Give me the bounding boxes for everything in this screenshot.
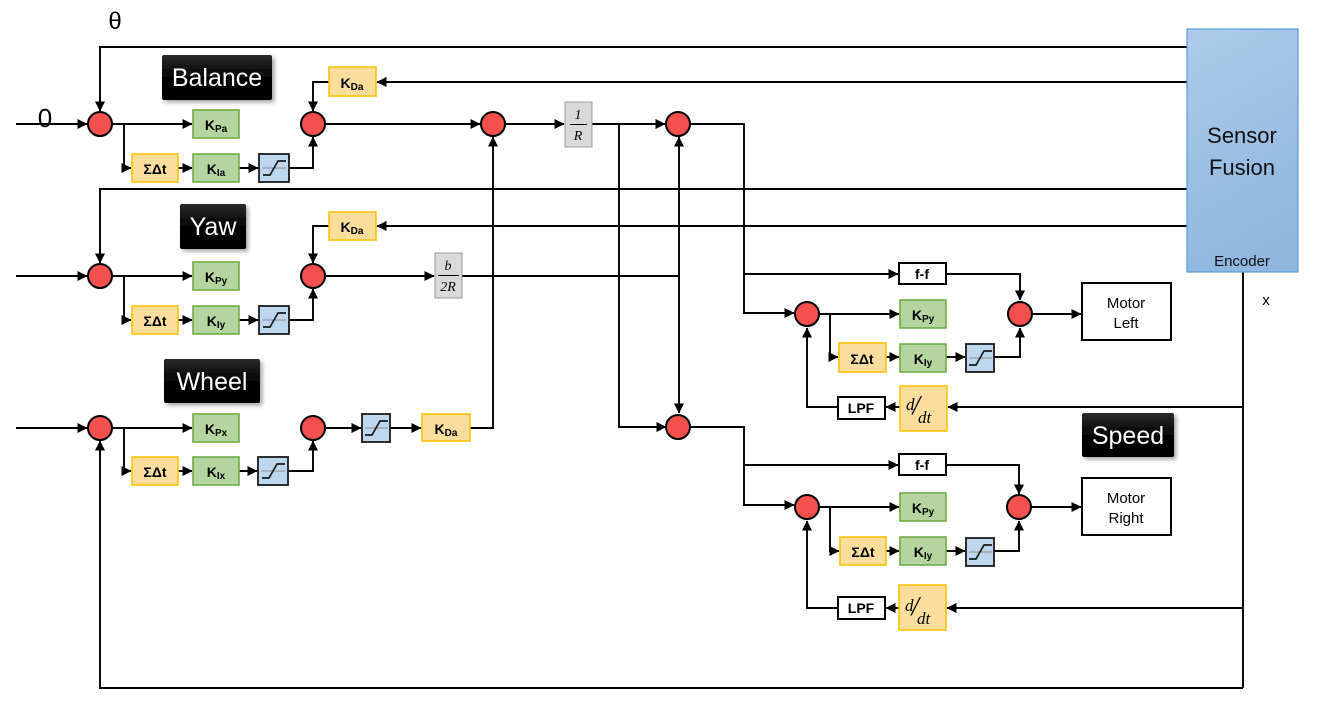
wire KIy left to saturation	[946, 356, 965, 358]
wire theta feedback from sensor fusion to balance sum	[100, 47, 1187, 111]
svg-text:ΣΔt: ΣΔt	[143, 161, 166, 177]
block LPF left	[838, 397, 885, 419]
gain KIy motor right	[900, 537, 946, 565]
block 1/R	[565, 102, 592, 147]
wire left out sum to Motor Left	[1032, 313, 1081, 315]
wire KDa yaw to yaw pid sum	[313, 226, 329, 263]
block d/dt left	[900, 386, 947, 431]
svg-text:0: 0	[38, 103, 52, 133]
wire b/2R output to vertical	[462, 275, 679, 277]
wire wheel sum to KPx	[113, 427, 192, 429]
gain KDa balance	[329, 67, 376, 96]
svg-text:Encoder: Encoder	[1214, 253, 1270, 270]
wire yaw down into speed sum	[678, 276, 680, 413]
wire branch to f-f left	[744, 273, 898, 275]
svg-text:x: x	[1262, 292, 1270, 309]
svg-text:Motor: Motor	[1107, 490, 1145, 507]
wire node C3 to 1/R	[505, 123, 564, 125]
svg-text:ΣΔt: ΣΔt	[143, 313, 166, 329]
svg-text:Motor: Motor	[1107, 295, 1145, 312]
wire branch to f-f right	[744, 464, 898, 466]
wire d/dt right to LPF	[886, 607, 899, 609]
sum junction balance	[88, 112, 112, 136]
sum-dt wheel	[132, 457, 178, 485]
wire f-f left to left out sum	[946, 274, 1020, 300]
saturation balance	[259, 154, 289, 182]
wire speed sum to motor-right pid sum	[690, 427, 794, 505]
wire LPF right to motor-right pid sum	[807, 521, 838, 608]
block b/2R	[435, 253, 462, 298]
gain KIa	[193, 154, 239, 182]
wire encoder to d/dt right	[947, 607, 1243, 609]
block f-f left	[899, 263, 946, 284]
title Speed	[1082, 413, 1174, 457]
wire branch wheel integral	[124, 428, 131, 471]
wire saturation to wheel pid sum	[288, 441, 313, 471]
wire sum-dt to KIx	[178, 470, 192, 472]
wire KIa to saturation	[239, 167, 258, 169]
svg-text:Sensor: Sensor	[1207, 123, 1277, 148]
wire branch yaw integral	[124, 276, 131, 320]
block LPF right	[838, 597, 885, 619]
sum-dt yaw	[132, 306, 178, 334]
svg-text:f-f: f-f	[915, 457, 929, 473]
wire d/dt left to LPF	[886, 406, 900, 408]
block d/dt right	[899, 585, 946, 630]
title Balance	[162, 55, 272, 100]
wire KDa to balance pid sum	[313, 82, 329, 111]
svg-text:Wheel: Wheel	[177, 368, 248, 396]
svg-text:R: R	[573, 129, 583, 144]
sum junction yaw pid	[301, 264, 325, 288]
wire saturation to balance pid sum	[289, 137, 313, 168]
saturation wheel integral	[258, 457, 288, 485]
sum junction node C4	[666, 112, 690, 136]
gain KPa	[193, 110, 239, 138]
svg-text:f-f: f-f	[915, 266, 929, 282]
block Motor Left	[1082, 283, 1171, 340]
sum junction motor left pid	[795, 302, 819, 326]
svg-text:Speed: Speed	[1092, 422, 1164, 450]
wire balance sum to KPa	[113, 123, 192, 125]
svg-text:LPF: LPF	[848, 400, 875, 416]
wire saturation to right out sum	[994, 521, 1019, 551]
sum junction speed	[666, 415, 690, 439]
saturation wheel output	[362, 414, 390, 442]
saturation motor right	[966, 538, 994, 566]
sum-dt balance	[132, 154, 178, 182]
wire sum-dt to KIy	[178, 319, 192, 321]
sum-dt motor left	[839, 343, 886, 372]
gain KIx wheel	[193, 457, 239, 485]
wire encoder to d/dt left	[948, 406, 1243, 408]
wire node C4 to motor-left pid sum	[690, 124, 794, 313]
wire KIy to saturation	[239, 319, 258, 321]
svg-text:b: b	[445, 259, 452, 274]
gain KPy motor right	[900, 493, 946, 521]
wire sum-dt to KIa	[178, 167, 192, 169]
sum-dt motor right	[840, 537, 886, 565]
saturation yaw	[259, 306, 289, 334]
gain KIy yaw	[193, 306, 239, 334]
svg-text:θ: θ	[108, 8, 121, 35]
svg-text:1: 1	[575, 108, 582, 123]
sum junction wheel pid	[301, 416, 325, 440]
wire branch right integral	[830, 507, 839, 551]
sum junction balance pid	[301, 112, 325, 136]
wire saturation out to KDa wheel	[390, 427, 421, 429]
wire branch left integral	[830, 314, 838, 357]
wire motor-right pid sum to KPy	[819, 506, 899, 508]
wire branch balance integral	[124, 124, 131, 168]
wire KDa yaw feedback from sensor fusion	[377, 225, 1187, 227]
wire saturation to yaw pid sum	[289, 289, 313, 320]
svg-text:Fusion: Fusion	[1209, 155, 1275, 180]
wire yaw pid sum to b/2R	[325, 275, 434, 277]
wire bottom x feedback to wheel sum	[100, 441, 1243, 688]
gain KPx wheel	[193, 414, 239, 442]
wire input to wheel sum	[16, 427, 87, 429]
wire KDa wheel up to node C3	[470, 137, 493, 428]
wire saturation to left out sum	[994, 328, 1020, 357]
sensor fusion block	[1187, 29, 1298, 272]
wire yaw sum to KPy	[113, 275, 192, 277]
wire yaw feedback from sensor fusion	[100, 189, 1187, 263]
svg-text:Balance: Balance	[172, 64, 262, 92]
sum junction wheel	[88, 416, 112, 440]
sum junction motor right pid	[795, 495, 819, 519]
wire motor-left pid sum to KPy	[819, 313, 899, 315]
wire sum-dt to KIy left	[886, 356, 899, 358]
sum junction node C3	[481, 112, 505, 136]
svg-text:ΣΔt: ΣΔt	[143, 464, 166, 480]
svg-text:Yaw: Yaw	[190, 213, 238, 241]
wire LPF left to motor-left pid sum	[807, 328, 838, 407]
gain KDa wheel	[422, 414, 470, 441]
svg-text:Left: Left	[1113, 315, 1139, 332]
sum junction yaw	[88, 264, 112, 288]
block Motor Right	[1082, 478, 1171, 535]
wire right out sum to Motor Right	[1031, 506, 1081, 508]
svg-text:LPF: LPF	[848, 600, 875, 616]
wire f-f right to right out sum	[946, 465, 1019, 494]
wire encoder vertical	[1242, 272, 1244, 688]
title Wheel	[164, 359, 260, 403]
svg-text:ΣΔt: ΣΔt	[850, 351, 873, 367]
wire input 0 to balance sum	[16, 123, 87, 125]
wire 1/R to node C4	[592, 123, 665, 125]
svg-text:2R: 2R	[440, 280, 456, 295]
wire balance pid sum to node C3	[325, 123, 480, 125]
wire KIx to saturation	[239, 470, 257, 472]
gain KPy motor left	[900, 300, 946, 328]
gain KPy yaw	[193, 262, 239, 290]
wire KIy right to saturation	[946, 550, 965, 552]
wire sum-dt to KIy right	[886, 550, 899, 552]
wire input to yaw sum	[16, 275, 87, 277]
wire branch down to speed sum	[619, 124, 666, 427]
sum junction motor left out	[1008, 302, 1032, 326]
saturation motor left	[966, 344, 994, 372]
wire KDa balance feedback from sensor fusion	[377, 81, 1187, 83]
gain KIy motor left	[900, 344, 946, 372]
block f-f right	[899, 454, 946, 475]
wire wheel pid sum to saturation out	[325, 427, 361, 429]
svg-text:ΣΔt: ΣΔt	[851, 544, 874, 560]
gain KDa yaw	[329, 212, 376, 240]
wire yaw up into node C4	[678, 137, 680, 276]
sum junction motor right out	[1007, 495, 1031, 519]
title Yaw	[180, 204, 246, 249]
svg-text:Right: Right	[1108, 510, 1144, 527]
